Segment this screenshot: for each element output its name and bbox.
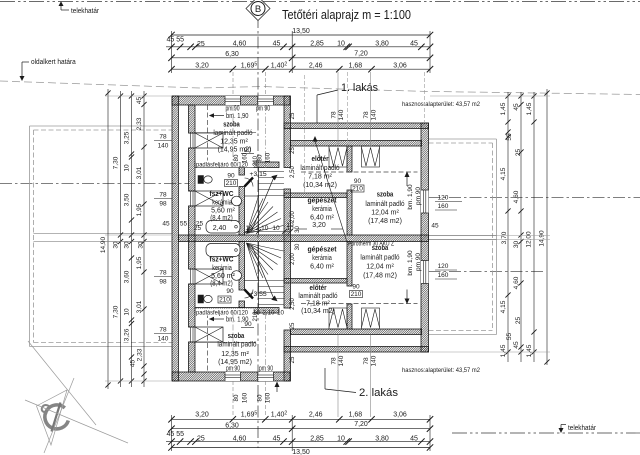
svg-text:3,06: 3,06: [393, 411, 407, 418]
left wall window glazing: [189, 132, 196, 134]
bm 1,90 label unit2: [211, 318, 224, 320]
outer wall right: [421, 123, 429, 352]
padlasfeljaro label unit2: [196, 309, 254, 316]
right chain ticks: [505, 93, 510, 98]
north symbol triangle: [37, 390, 68, 445]
svg-text:4,60: 4,60: [233, 40, 247, 47]
headroom line unit1: [301, 171, 418, 173]
svg-text:4,15: 4,15: [500, 300, 507, 313]
svg-text:210: 210: [219, 297, 230, 304]
svg-text:78: 78: [159, 192, 167, 199]
svg-text:1,45: 1,45: [526, 344, 533, 357]
svg-text:szoba: szoba: [372, 243, 389, 252]
svg-text:80: 80: [233, 394, 240, 401]
north symbol hook: [42, 405, 49, 412]
svg-text:12,35 m²: 12,35 m²: [221, 351, 249, 358]
svg-text:45: 45: [130, 360, 137, 368]
svg-text:laminált padló: laminált padló: [360, 255, 399, 262]
svg-text:78: 78: [363, 111, 370, 119]
svg-text:(8,4 m2): (8,4 m2): [210, 281, 232, 288]
svg-text:7,30: 7,30: [113, 156, 120, 169]
svg-text:90: 90: [227, 173, 235, 180]
svg-text:telekhatár: telekhatár: [568, 425, 597, 432]
bottom dim row 45/55/25/...: [166, 441, 430, 443]
left chain lines: [107, 89, 109, 389]
svg-text:2,46: 2,46: [309, 411, 323, 418]
svg-text:telekhatár: telekhatár: [71, 8, 100, 15]
right chain lines: [507, 92, 509, 362]
axis line right upper: [429, 196, 640, 198]
svg-text:45: 45: [410, 435, 418, 442]
svg-text:10: 10: [245, 225, 253, 232]
svg-text:padlásfeljáró 60/120: padlásfeljáró 60/120: [196, 162, 248, 169]
wall: left block right side / stair wall: [284, 96, 291, 168]
svg-text:45: 45: [162, 221, 170, 228]
svg-text:kerámia: kerámia: [312, 206, 332, 213]
extension lines bottom: [232, 381, 234, 417]
partition B2 fszWC2/stair: [239, 242, 245, 291]
svg-text:6,30: 6,30: [225, 422, 239, 429]
svg-text:2,33: 2,33: [137, 348, 144, 361]
toilet unit1: [198, 176, 204, 184]
window W2 top-left: [258, 96, 274, 105]
svg-text:laminált padló: laminált padló: [365, 201, 404, 208]
svg-text:2,00: 2,00: [290, 211, 296, 223]
partition E2 eloter2/szoba2: [347, 242, 352, 287]
svg-text:25: 25: [515, 317, 522, 325]
svg-text:pm 90: pm 90: [259, 366, 273, 373]
svg-text:2,33: 2,33: [136, 117, 143, 130]
svg-text:25: 25: [290, 112, 296, 119]
svg-text:6,40 m²: 6,40 m²: [310, 215, 334, 222]
svg-text:6,40 m²: 6,40 m²: [310, 264, 334, 271]
svg-text:2,46: 2,46: [309, 62, 323, 69]
svg-text:210: 210: [226, 180, 237, 187]
right extension lines: [430, 95, 550, 97]
padlasfeljaro label unit1: [196, 161, 254, 168]
svg-text:140: 140: [158, 336, 169, 343]
svg-text:szoba: szoba: [228, 331, 245, 340]
svg-text:78: 78: [159, 134, 167, 141]
property line telekhatar top: [0, 1, 640, 3]
svg-text:80: 80: [257, 154, 264, 161]
right section bottom inner band: [291, 329, 422, 335]
svg-text:hasznos:alapterület: 43,57 m2: hasznos:alapterület: 43,57 m2: [402, 101, 480, 108]
svg-text:78: 78: [363, 357, 370, 365]
svg-text:2,50: 2,50: [290, 298, 296, 310]
washbasin unit1: [232, 196, 242, 206]
roof window V1 unit1: [329, 146, 347, 167]
svg-text:1,45: 1,45: [500, 102, 507, 115]
svg-text:12,04 m²: 12,04 m²: [366, 264, 394, 271]
window right lower: [421, 261, 429, 284]
headroom line szoba1 left: [207, 105, 209, 162]
svg-text:98: 98: [159, 201, 167, 208]
bottom dim row 13,50: [172, 447, 431, 449]
svg-text:hasznos:alapterület: 43,57 m2: hasznos:alapterület: 43,57 m2: [402, 367, 480, 374]
svg-text:90: 90: [354, 178, 362, 185]
top dimension row 6,30 / 7,20: [172, 57, 431, 59]
svg-text:pm 90: pm 90: [415, 253, 422, 271]
svg-text:kerámia: kerámia: [312, 255, 332, 262]
svg-text:140: 140: [158, 143, 169, 150]
right section bottom outer band: [284, 347, 429, 353]
svg-text:10: 10: [272, 225, 280, 232]
window projection symbol fszWC1: [195, 191, 223, 206]
svg-text:45: 45: [513, 341, 520, 349]
roof window V2 unit1: [362, 146, 380, 167]
svg-text:10: 10: [124, 308, 131, 316]
top dimension row 13,50: [172, 34, 431, 36]
top dimension row 3,20/1,69/1,40/2,46/1,68/3,06: [172, 68, 431, 70]
svg-text:90: 90: [226, 288, 234, 295]
top dimension row 45/55/25/4,60/45/2,85/10/3,80/45: [166, 46, 430, 48]
svg-text:25: 25: [290, 356, 296, 363]
walk line unit1 stair: [252, 177, 275, 231]
svg-text:1,68: 1,68: [349, 411, 363, 418]
telekhatar top label leader: [59, 1, 64, 6]
north symbol crossbar: [52, 403, 61, 432]
svg-text:1. lakás: 1. lakás: [341, 82, 378, 94]
svg-text:30: 30: [295, 243, 301, 250]
svg-text:2,85: 2,85: [310, 40, 324, 47]
svg-text:30: 30: [295, 226, 301, 233]
svg-text:30: 30: [513, 241, 520, 249]
svg-text:12,35 m²: 12,35 m²: [220, 139, 248, 146]
svg-text:13,50: 13,50: [292, 28, 310, 35]
outer wall: left band inner (segments around windows): [189, 105, 196, 133]
svg-text:7,18 m²: 7,18 m²: [306, 301, 330, 308]
svg-text:30: 30: [124, 241, 131, 249]
svg-text:előtér: előtér: [310, 283, 327, 292]
svg-text:1,68: 1,68: [349, 62, 363, 69]
svg-text:7,20: 7,20: [354, 51, 368, 58]
svg-text:7,30: 7,30: [113, 305, 120, 318]
section line B vertical: [257, 16, 259, 448]
svg-text:45: 45: [431, 223, 439, 230]
level arrow below building: [275, 382, 280, 388]
svg-text:80: 80: [233, 154, 240, 161]
svg-text:3,01: 3,01: [136, 300, 143, 313]
window W1 top-left: [225, 96, 241, 105]
bathtub unit1 with 2,40 dim: [206, 221, 240, 234]
svg-text:160: 160: [265, 392, 272, 403]
svg-text:1,45: 1,45: [526, 102, 533, 115]
svg-text:szoba: szoba: [377, 190, 394, 199]
door leaf unit1 entry: [245, 178, 254, 187]
svg-text:78: 78: [331, 357, 338, 365]
svg-text:bm. 1,90: bm. 1,90: [226, 113, 248, 120]
oldalkert hatara label: [22, 61, 29, 63]
svg-text:3,20: 3,20: [195, 411, 209, 418]
bottom dim row 3,20...: [172, 418, 431, 420]
svg-text:(10,34 m2): (10,34 m2): [301, 308, 335, 315]
svg-text:78: 78: [159, 270, 167, 277]
svg-text:3,20: 3,20: [195, 62, 209, 69]
svg-text:120: 120: [438, 195, 449, 202]
svg-text:7,18 m²: 7,18 m²: [308, 174, 332, 181]
svg-text:2. lakás: 2. lakás: [359, 387, 399, 399]
svg-text:3,01: 3,01: [136, 166, 143, 179]
bathtub unit2: [206, 244, 240, 257]
svg-text:3,20: 3,20: [312, 222, 326, 229]
svg-text:4,60: 4,60: [513, 276, 520, 289]
right section top outer band: [284, 123, 429, 129]
svg-text:45: 45: [136, 97, 143, 105]
svg-text:210: 210: [253, 311, 259, 322]
section marker B: [246, 0, 270, 21]
svg-text:bm. 1,90: bm. 1,90: [407, 250, 414, 276]
partition D2 gepeszet2/eloter2: [284, 279, 347, 284]
svg-text:szoba: szoba: [223, 120, 240, 129]
svg-text:2,40: 2,40: [213, 225, 227, 232]
walk line unit2 stair: [252, 245, 275, 299]
svg-text:10: 10: [337, 435, 345, 442]
svg-text:45 55: 45 55: [167, 37, 185, 44]
svg-text:3,06: 3,06: [393, 62, 407, 69]
svg-text:3,26: 3,26: [124, 328, 131, 341]
window projection symbol szoba2 left: [195, 327, 223, 342]
svg-text:3,80: 3,80: [375, 40, 389, 47]
svg-text:kerámia: kerámia: [212, 265, 232, 272]
window projection symbol fszWC2: [195, 269, 223, 284]
svg-text:55: 55: [506, 333, 513, 341]
outer wall: left band outer: [172, 96, 179, 381]
svg-text:5,60 m²: 5,60 m²: [211, 273, 235, 280]
svg-text:25: 25: [197, 435, 205, 442]
svg-text:10: 10: [277, 310, 284, 317]
svg-text:gépészet: gépészet: [308, 196, 338, 205]
svg-text:78: 78: [159, 327, 167, 334]
svg-text:45: 45: [513, 103, 520, 111]
svg-text:120: 120: [438, 263, 449, 270]
svg-text:kerámia: kerámia: [212, 200, 232, 207]
svg-text:pm 90: pm 90: [256, 106, 270, 113]
window projection symbol szoba1 left: [195, 133, 223, 148]
svg-text:bm. 1,90: bm. 1,90: [407, 184, 414, 210]
top dim vertical connectors: [171, 31, 173, 73]
roof window V3 unit2: [329, 308, 347, 329]
svg-text:4,60: 4,60: [233, 435, 247, 442]
svg-text:160: 160: [265, 152, 272, 163]
svg-text:4,15: 4,15: [500, 167, 507, 180]
svg-text:160: 160: [242, 392, 249, 403]
svg-text:45: 45: [273, 40, 281, 47]
svg-text:5,60 m²: 5,60 m²: [211, 208, 235, 215]
axis line left: [0, 183, 189, 185]
svg-text:6,30: 6,30: [225, 51, 239, 58]
svg-text:1,95: 1,95: [136, 256, 143, 269]
svg-text:(17,48 m2): (17,48 m2): [368, 218, 402, 225]
apartment labels: [316, 95, 318, 123]
svg-text:12,04 m²: 12,04 m²: [371, 210, 399, 217]
svg-text:210: 210: [351, 291, 362, 298]
svg-text:2,85: 2,85: [310, 435, 324, 442]
telekhatar bottom right: [452, 432, 640, 434]
svg-text:fsz+WC: fsz+WC: [210, 189, 234, 198]
svg-text:(17,48 m2): (17,48 m2): [363, 273, 397, 280]
window W4 bottom-left: [258, 372, 274, 381]
svg-text:78: 78: [331, 111, 338, 119]
svg-text:90: 90: [352, 284, 360, 291]
partition A1 szoba1/fszWC1: [195, 162, 279, 168]
window W3 bottom-left: [225, 372, 241, 381]
svg-text:14,90: 14,90: [539, 230, 546, 247]
svg-text:Tetőtéri alaprajz m = 1:100: Tetőtéri alaprajz m = 1:100: [282, 8, 411, 22]
svg-text:10: 10: [337, 40, 345, 47]
svg-text:160: 160: [242, 152, 249, 163]
left chain ticks: [141, 93, 146, 98]
svg-text:14,90: 14,90: [100, 236, 107, 253]
svg-text:4,60: 4,60: [513, 190, 520, 203]
svg-text:3,70: 3,70: [501, 231, 508, 244]
svg-text:25: 25: [290, 322, 296, 329]
svg-text:2,50: 2,50: [290, 166, 296, 178]
window right upper: [421, 190, 429, 213]
svg-text:7,20: 7,20: [354, 421, 368, 428]
svg-text:45: 45: [410, 40, 418, 47]
roof outline left (lower storey): [30, 125, 173, 127]
toilet unit2: [198, 295, 204, 303]
svg-text:pm 90: pm 90: [226, 106, 240, 113]
outer wall: left block bottom: [172, 372, 290, 381]
svg-text:90: 90: [244, 321, 252, 328]
roof outline right (lower storey): [429, 138, 497, 140]
svg-text:210: 210: [352, 186, 363, 193]
partition B1 fszWC1/stair: [239, 168, 245, 176]
left extension lines: [105, 95, 172, 97]
svg-text:laminált padló: laminált padló: [217, 342, 256, 349]
svg-text:pm 90: pm 90: [415, 187, 422, 205]
svg-text:1,95: 1,95: [136, 203, 143, 216]
staircase unit 2: [258, 242, 260, 309]
svg-text:3,50: 3,50: [124, 193, 131, 206]
svg-text:2,00: 2,00: [290, 253, 296, 265]
svg-text:45 55: 45 55: [167, 431, 185, 438]
svg-text:45: 45: [273, 435, 281, 442]
svg-text:oldalkert határa: oldalkert határa: [31, 59, 76, 66]
headroom line unit2: [301, 303, 418, 305]
svg-text:3,80: 3,80: [375, 435, 389, 442]
svg-text:13,50: 13,50: [292, 449, 310, 455]
svg-text:98: 98: [159, 279, 167, 286]
svg-text:laminált padló: laminált padló: [298, 293, 337, 300]
svg-text:gépészet: gépészet: [308, 245, 338, 254]
svg-text:140: 140: [371, 355, 378, 366]
svg-text:B: B: [255, 4, 261, 15]
svg-text:25: 25: [196, 221, 204, 228]
svg-text:160: 160: [438, 203, 449, 210]
svg-text:25: 25: [515, 149, 522, 157]
outer wall: left block top: [172, 96, 290, 105]
bottom dim row 6,30 / 7,20: [172, 428, 431, 430]
staircase unit 1: [258, 168, 260, 236]
roof window V4 unit2: [362, 308, 380, 329]
svg-text:2,10: 2,10: [256, 225, 269, 232]
svg-text:laminált padló: laminált padló: [300, 165, 339, 172]
svg-text:3,25: 3,25: [124, 131, 131, 144]
party wall projection right: [429, 235, 497, 237]
porotherm leader line: [315, 141, 347, 242]
svg-text:80: 80: [257, 394, 264, 401]
svg-text:(10,34 m2): (10,34 m2): [303, 182, 337, 189]
svg-text:140: 140: [371, 109, 378, 120]
axis line right lower: [429, 271, 546, 273]
svg-text:140: 140: [338, 109, 345, 120]
svg-text:(8,4 m2): (8,4 m2): [210, 215, 232, 222]
svg-text:2,10: 2,10: [262, 310, 275, 317]
svg-text:10: 10: [124, 164, 131, 172]
bottom dim vertical connectors: [171, 415, 173, 451]
party wall (Porotherm 30 AKU Z): [179, 235, 429, 242]
svg-text:160: 160: [438, 272, 449, 279]
svg-text:3,60: 3,60: [124, 270, 131, 283]
svg-text:55: 55: [506, 133, 513, 141]
headroom line szoba2 left: [207, 313, 209, 372]
svg-text:1,45: 1,45: [500, 344, 507, 357]
oldalkert hatara boundary dashed line: [0, 81, 640, 95]
interior window axis lines szoba2: [232, 313, 234, 372]
svg-text:25: 25: [197, 41, 205, 48]
interior window axis lines szoba1: [232, 105, 234, 168]
svg-text:30: 30: [138, 241, 145, 249]
extension lines top to building: [232, 72, 234, 96]
section line B through window gaps: [257, 94, 259, 107]
svg-text:előtér: előtér: [312, 154, 329, 163]
partition D1 eloter1/gepeszet1: [284, 193, 347, 198]
party wall projection left: [34, 233, 173, 235]
partition A2 szoba2/fszWC2: [195, 308, 279, 314]
door leaf unit2 entry: [245, 290, 254, 299]
svg-text:55: 55: [180, 221, 188, 228]
north symbol rays: [44, 378, 74, 453]
partition E1 eloter1/szoba1: [347, 146, 352, 172]
north symbol ring: [45, 405, 68, 429]
interior dim row unit1 10/2,10/10: [245, 231, 292, 233]
right section top inner band: [291, 141, 422, 147]
bm 1,90 label unit1: [211, 115, 224, 117]
svg-text:30: 30: [113, 241, 120, 249]
svg-text:25: 25: [290, 147, 296, 154]
svg-text:140: 140: [338, 355, 345, 366]
washbasin unit2: [232, 271, 242, 281]
svg-text:fsz+WC: fsz+WC: [210, 255, 234, 264]
